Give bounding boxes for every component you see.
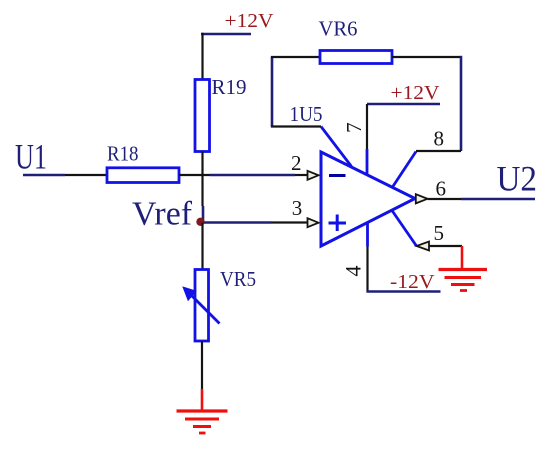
svg-text:4: 4 [341, 266, 366, 277]
svg-text:R18: R18 [107, 142, 139, 166]
svg-text:R19: R19 [212, 75, 247, 99]
svg-text:8: 8 [434, 127, 445, 151]
svg-text:U2: U2 [497, 159, 538, 199]
svg-text:5: 5 [434, 221, 445, 245]
svg-text:VR6: VR6 [319, 17, 358, 41]
svg-text:Vref: Vref [132, 196, 193, 233]
svg-text:3: 3 [292, 196, 303, 220]
svg-text:+12V: +12V [391, 82, 441, 104]
svg-text:VR5: VR5 [220, 267, 256, 291]
svg-text:2: 2 [291, 151, 302, 175]
svg-text:U1: U1 [15, 137, 47, 177]
svg-text:1U5: 1U5 [290, 102, 323, 126]
svg-text:6: 6 [436, 177, 447, 201]
svg-text:7: 7 [342, 122, 366, 133]
svg-text:+12V: +12V [225, 10, 275, 32]
svg-text:-12V: -12V [390, 271, 435, 293]
